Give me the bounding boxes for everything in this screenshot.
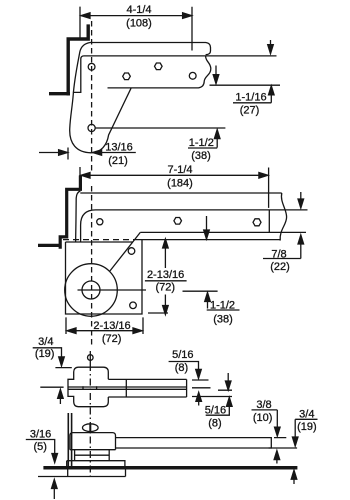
svg-text:2-13/16: 2-13/16 [147,269,184,281]
pivot crosshair fig2 [78,289,147,291]
dimension 7/8 (22) arrows [263,192,304,259]
cement case below floor fig4 [38,470,126,477]
svg-text:(21): (21) [108,155,128,167]
dimension 5/16 (8) lower arrows fig3 [206,373,232,415]
svg-text:3/4: 3/4 [299,409,314,421]
break squiggle fig2 [280,193,286,241]
cap bottom / mid block fig4 [70,450,116,461]
plate hole lower fig2 [130,302,137,309]
svg-text:(72): (72) [156,281,176,293]
hex hole (177.7,220.8) fig2 [174,218,182,225]
svg-text:7/8: 7/8 [271,249,286,261]
dimension 13/16 (21) [39,148,136,160]
svg-text:1-1/2: 1-1/2 [210,300,235,312]
pivot centerline leader fig1 [95,127,225,129]
arrow at door bottom fig2 [204,216,210,239]
hole (91.6,66.8) fig1 [88,63,95,70]
svg-text:(27): (27) [240,105,260,117]
strip lines fig3 [68,379,187,397]
pivot hole fig1 [88,124,95,131]
dimension 7-1/4 (184) [80,167,269,208]
svg-text:(19): (19) [297,421,317,433]
svg-text:(184): (184) [167,178,193,190]
frame section (thick line) fig2 [38,176,82,249]
svg-text:5/16: 5/16 [205,405,226,417]
dimension 4-1/4 (108) [80,7,192,51]
dimension 1-1/16 (27) arrows [233,40,274,103]
svg-text:4-1/4: 4-1/4 [126,4,151,16]
dimension 3/8 (10) arrows fig4 [252,410,281,464]
door plate top edge fig1 [84,55,277,57]
gusset diagonal fig2 [110,232,141,271]
svg-text:(10): (10) [253,412,273,424]
arm top edge fig2 [80,192,281,194]
screw head fig4 [83,424,99,432]
svg-text:(72): (72) [102,333,122,345]
ext lines right of strip fig4 [269,438,298,448]
dimension 1-1/2 (38) arrows [188,66,220,149]
svg-text:(22): (22) [270,261,290,273]
screw slot fig4 [89,424,91,431]
dimension 2-13/16 (72) bottom [66,317,143,334]
mount plate fig2 [66,240,143,314]
knuckle body fig3 [68,367,108,407]
svg-text:7-1/4: 7-1/4 [167,164,192,176]
svg-text:3/16: 3/16 [30,429,51,441]
centerline symbol fig3 [88,355,94,361]
bracket inner edge fig2 [81,210,96,242]
dimension 3/4 (19) arrows fig3 [33,348,72,404]
svg-text:(19): (19) [35,348,55,360]
jamb lines fig4 [68,413,71,467]
hole (192.7,75.8) fig1 [189,72,196,79]
svg-text:5/16: 5/16 [172,349,193,361]
pivot cap fig4 [70,433,116,450]
dimension 1-1/2 (38) fig2 [183,291,240,310]
svg-text:(108): (108) [126,18,152,30]
pivot inner circle fig2 [82,281,100,299]
bracket outer edge fig2 [76,191,81,242]
bracket top edge / jamb plate fig1 [90,43,211,55]
frame section (thick line) fig1 [49,24,90,95]
svg-text:(5): (5) [33,441,46,453]
arm bottom edge fig1 [108,56,211,88]
hex hole (158.3,66.3) fig1 [155,63,163,70]
knuckle pin ticks fig3 [83,386,97,390]
arm mid line fig2 [96,209,308,211]
centerline fig2 (dashed) [91,186,93,346]
svg-text:(38): (38) [213,314,233,326]
bracket outline fig1 [70,43,131,153]
arm lower line / notch fig2 [140,210,306,232]
dimension 2-13/16 (72) vertical arrows [145,239,187,315]
dimension 3/16 (5) arrows fig4 [26,440,58,500]
hex hole (126.5,76.3) fig1 [123,73,131,80]
strip end fig3 [186,379,188,397]
centerline fig1 (dashed) [91,21,93,172]
door strip fig4 [116,438,272,448]
strip joint fig3 [125,379,127,397]
door bottom line fig2 (hidden left, solid right) [63,239,134,241]
svg-text:3/4: 3/4 [38,336,53,348]
svg-text:2-13/16: 2-13/16 [93,320,130,332]
pivot boss circle fig2 [65,264,118,317]
svg-text:(38): (38) [191,150,211,162]
svg-text:(8): (8) [175,362,188,374]
svg-text:3/8: 3/8 [256,399,271,411]
hole (99.8,221.8) fig2 [97,219,103,225]
plate hole upper fig2 [128,248,135,255]
svg-text:1-1/16: 1-1/16 [235,92,266,104]
inner bend plate fig1 [73,56,84,93]
door strip bottom line fig1 [210,84,281,86]
dimension 3/4 (19) arrows fig4 [291,419,317,484]
base plate fig4 [67,461,125,467]
svg-text:1-1/2: 1-1/2 [189,137,214,149]
dimension 5/16 (8) upper arrows fig3 [169,362,232,406]
centerline fig3/fig4 (dash-dot) [89,364,91,478]
floor line (thick) fig4 [43,466,297,470]
svg-text:13/16: 13/16 [105,142,133,154]
svg-text:(8): (8) [208,418,221,430]
hex hole (257,222.3) fig2 [253,219,261,226]
